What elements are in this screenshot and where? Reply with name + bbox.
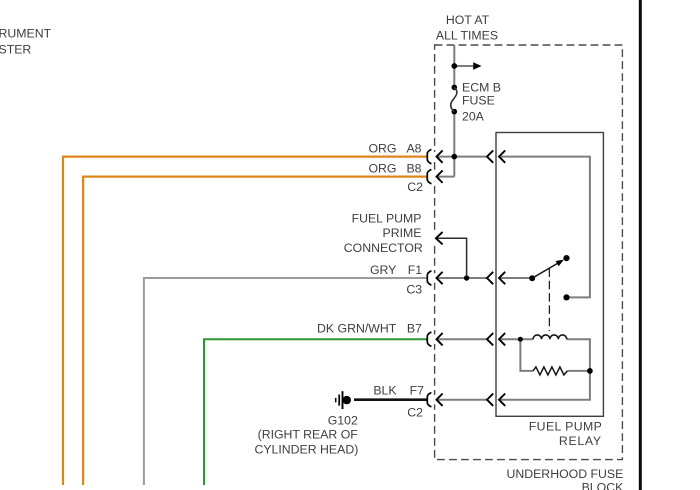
svg-text:FUEL PUMP: FUEL PUMP xyxy=(529,419,603,433)
svg-text:BLK: BLK xyxy=(373,384,397,398)
svg-text:B7: B7 xyxy=(407,322,422,336)
svg-text:HOT AT: HOT AT xyxy=(446,13,490,27)
svg-text:BLOCK: BLOCK xyxy=(582,481,624,490)
svg-text:C2: C2 xyxy=(407,180,423,194)
svg-text:RELAY: RELAY xyxy=(559,434,602,448)
svg-text:CYLINDER HEAD): CYLINDER HEAD) xyxy=(254,443,358,457)
svg-text:(RIGHT REAR OF: (RIGHT REAR OF xyxy=(258,428,359,442)
svg-text:B8: B8 xyxy=(406,161,421,175)
svg-text:CONNECTOR: CONNECTOR xyxy=(344,241,423,255)
svg-text:ORG: ORG xyxy=(368,141,396,155)
svg-text:F1: F1 xyxy=(408,263,423,277)
svg-text:ECM B: ECM B xyxy=(462,80,501,94)
svg-text:20A: 20A xyxy=(462,110,485,124)
svg-text:UNDERHOOD FUSE: UNDERHOOD FUSE xyxy=(506,467,623,481)
svg-text:FUEL PUMP: FUEL PUMP xyxy=(352,212,422,226)
svg-text:C3: C3 xyxy=(406,283,422,297)
svg-text:ORG: ORG xyxy=(368,161,396,175)
svg-text:STER: STER xyxy=(0,42,31,56)
svg-text:GRY: GRY xyxy=(370,263,396,277)
svg-text:A8: A8 xyxy=(406,141,421,155)
svg-text:FUSE: FUSE xyxy=(462,94,495,108)
svg-text:RUMENT: RUMENT xyxy=(0,27,52,41)
svg-text:PRIME: PRIME xyxy=(383,226,422,240)
svg-text:G102: G102 xyxy=(328,413,358,427)
svg-text:C2: C2 xyxy=(407,406,423,420)
svg-text:ALL TIMES: ALL TIMES xyxy=(436,29,498,43)
svg-text:F7: F7 xyxy=(410,384,425,398)
svg-text:DK GRN/WHT: DK GRN/WHT xyxy=(317,322,397,336)
